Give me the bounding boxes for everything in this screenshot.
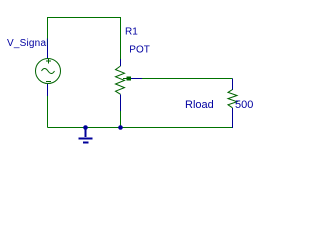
svg-text:POT: POT xyxy=(129,45,150,56)
svg-text:R1: R1 xyxy=(125,27,138,38)
pin bottom of Rload xyxy=(232,108,234,128)
wire top from V_Signal to R1 top xyxy=(48,18,121,60)
pin top of V_Signal xyxy=(47,46,49,59)
wire left bottom from V_Signal minus to bottom rail xyxy=(47,96,49,128)
potentiometer R1 xyxy=(116,59,143,111)
zigzag body of R1 xyxy=(116,66,125,94)
zigzag body of Rload xyxy=(228,90,237,108)
pin bottom of R1 xyxy=(120,94,122,111)
svg-text:500: 500 xyxy=(235,99,253,111)
wire pot bottom to rail xyxy=(120,111,122,128)
wiper arrow of R1 xyxy=(123,78,127,80)
minus mark of V_Signal xyxy=(46,81,51,83)
resistor Rload xyxy=(228,79,237,129)
voltage source V_Signal xyxy=(36,46,61,96)
junction dot at pot bottom xyxy=(118,125,123,130)
body circle of V_Signal xyxy=(36,59,61,84)
junction dot at ground xyxy=(83,125,88,130)
wire bottom rail xyxy=(48,127,234,129)
svg-text:Rload: Rload xyxy=(185,99,214,111)
plus mark of V_Signal xyxy=(46,59,51,64)
sine wave of V_Signal xyxy=(42,69,55,74)
ground xyxy=(79,128,93,143)
pin top of Rload xyxy=(232,79,234,91)
pin top of R1 xyxy=(120,59,122,66)
wire from wiper to Rload top xyxy=(142,78,233,80)
pin wiper of R1 xyxy=(131,78,142,80)
pin bottom of V_Signal xyxy=(47,84,49,96)
svg-text:V_Signal: V_Signal xyxy=(7,38,49,49)
